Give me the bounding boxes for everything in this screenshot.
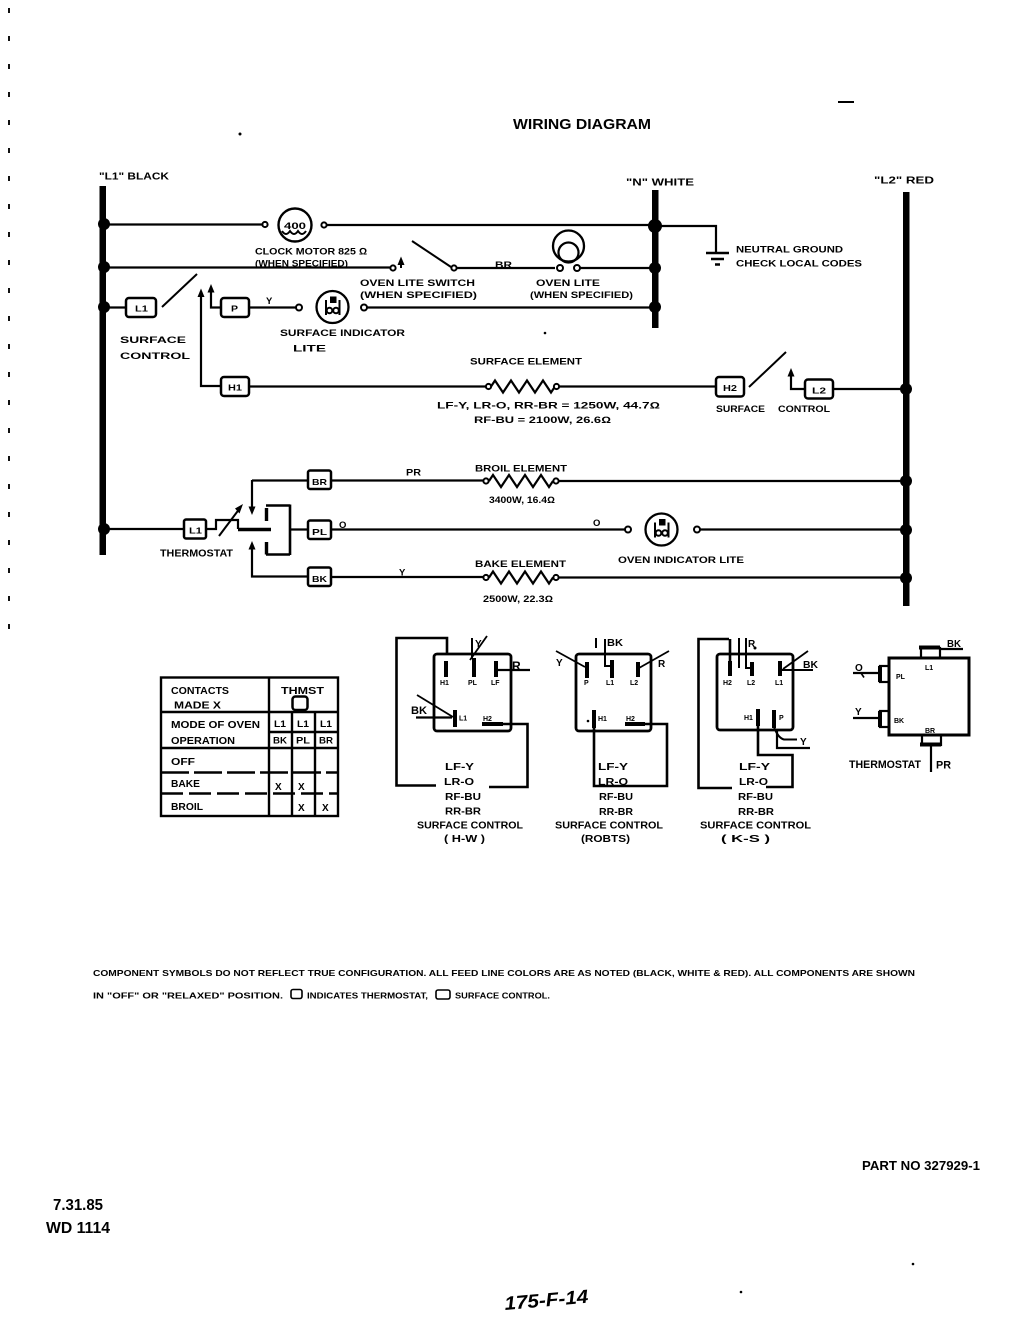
svg-text:RF-BU: RF-BU <box>738 791 773 803</box>
svg-text:OVEN LITE: OVEN LITE <box>536 278 600 289</box>
svg-text:LR-O: LR-O <box>739 776 768 788</box>
svg-text:2500W, 22.3Ω: 2500W, 22.3Ω <box>483 594 553 604</box>
svg-text:R: R <box>658 659 666 670</box>
svg-text:BK: BK <box>411 705 427 717</box>
svg-text:CONTROL: CONTROL <box>778 404 830 415</box>
svg-text:RR-BR: RR-BR <box>599 806 633 818</box>
svg-text:Y: Y <box>855 707 862 718</box>
svg-text:LF-Y: LF-Y <box>445 761 474 773</box>
svg-text:SURFACE INDICATOR: SURFACE INDICATOR <box>280 328 405 339</box>
svg-text:BK: BK <box>273 736 288 746</box>
svg-text:BAKE ELEMENT: BAKE ELEMENT <box>475 559 566 570</box>
svg-text:Y: Y <box>266 296 273 307</box>
svg-text:CLOCK MOTOR 825 Ω: CLOCK MOTOR 825 Ω <box>255 247 367 258</box>
svg-text:L1: L1 <box>274 719 286 729</box>
svg-text:CONTROL: CONTROL <box>120 351 190 362</box>
svg-text:BK: BK <box>312 574 328 584</box>
svg-text:(WHEN SPECIFIED): (WHEN SPECIFIED) <box>360 290 477 301</box>
svg-text:( H-W ): ( H-W ) <box>444 833 485 845</box>
svg-text:Y: Y <box>556 658 563 669</box>
svg-text:"L2" RED: "L2" RED <box>874 176 934 187</box>
svg-text:RF-BU: RF-BU <box>445 791 481 803</box>
svg-text:R: R <box>512 659 521 673</box>
svg-text:X: X <box>298 782 305 793</box>
svg-text:PR: PR <box>406 468 421 479</box>
svg-text:H2: H2 <box>626 716 635 723</box>
svg-text:PL: PL <box>896 674 906 681</box>
svg-text:LF-Y: LF-Y <box>598 761 628 773</box>
svg-text:BAKE: BAKE <box>171 778 200 790</box>
svg-text:Y: Y <box>475 639 482 650</box>
svg-text:Y: Y <box>800 737 807 748</box>
svg-text:LF-Y, LR-O, RR-BR = 1250W, 44.: LF-Y, LR-O, RR-BR = 1250W, 44.7Ω <box>437 401 660 411</box>
svg-text:LF-Y: LF-Y <box>739 761 770 773</box>
svg-text:BR: BR <box>925 728 935 735</box>
svg-text:MADE X: MADE X <box>174 700 221 712</box>
svg-text:SURFACE CONTROL.: SURFACE CONTROL. <box>455 991 550 1001</box>
svg-text:"L1" BLACK: "L1" BLACK <box>99 172 170 183</box>
svg-text:RF-BU: RF-BU <box>599 791 633 803</box>
svg-text:P: P <box>779 715 784 722</box>
svg-text:CONTACTS: CONTACTS <box>171 685 229 697</box>
svg-text:THERMOSTAT: THERMOSTAT <box>849 759 921 771</box>
svg-text:(ROBTS): (ROBTS) <box>581 833 630 845</box>
svg-text:RR-BR: RR-BR <box>445 806 481 818</box>
svg-text:"N" WHITE: "N" WHITE <box>626 178 694 189</box>
svg-text:SURFACE CONTROL: SURFACE CONTROL <box>417 820 524 832</box>
svg-text:BK: BK <box>947 639 962 650</box>
svg-text:( K-S ): ( K-S ) <box>721 833 770 845</box>
svg-text:Y: Y <box>399 568 406 579</box>
svg-text:H2: H2 <box>723 680 732 687</box>
svg-text:CHECK LOCAL CODES: CHECK LOCAL CODES <box>736 259 862 270</box>
svg-text:THMST: THMST <box>281 685 325 697</box>
svg-text:L1: L1 <box>135 304 148 314</box>
svg-text:L1: L1 <box>297 719 309 729</box>
svg-text:P: P <box>584 680 589 687</box>
svg-text:RR-BR: RR-BR <box>738 806 774 818</box>
svg-text:H1: H1 <box>598 716 607 723</box>
svg-text:L2: L2 <box>630 680 638 687</box>
svg-text:PR: PR <box>936 760 951 772</box>
svg-text:7.31.85: 7.31.85 <box>53 1197 103 1214</box>
svg-text:RF-BU = 2100W, 26.6Ω: RF-BU = 2100W, 26.6Ω <box>474 415 611 425</box>
svg-text:L1: L1 <box>775 680 783 687</box>
svg-text:SURFACE ELEMENT: SURFACE ELEMENT <box>470 357 582 368</box>
svg-text:H1: H1 <box>228 383 242 393</box>
svg-text:SURFACE: SURFACE <box>120 335 186 346</box>
svg-text:COMPONENT SYMBOLS DO NOT REFLE: COMPONENT SYMBOLS DO NOT REFLECT TRUE CO… <box>93 968 915 978</box>
svg-text:O: O <box>339 520 346 531</box>
svg-text:BROIL ELEMENT: BROIL ELEMENT <box>475 464 567 475</box>
svg-text:INDICATES THERMOSTAT,: INDICATES THERMOSTAT, <box>307 991 428 1001</box>
svg-text:L1: L1 <box>189 526 202 536</box>
svg-text:BK: BK <box>894 718 904 725</box>
svg-text:LR-O: LR-O <box>444 776 474 788</box>
svg-text:PL: PL <box>296 736 311 746</box>
svg-text:LF: LF <box>491 680 500 687</box>
svg-text:IN "OFF" OR "RELAXED" POSITION: IN "OFF" OR "RELAXED" POSITION. <box>93 991 283 1001</box>
svg-text:WD 1114: WD 1114 <box>46 1220 110 1237</box>
svg-text:LITE: LITE <box>293 344 326 355</box>
svg-text:H2: H2 <box>483 716 492 723</box>
svg-text:WIRING DIAGRAM: WIRING DIAGRAM <box>513 116 651 133</box>
svg-text:BR: BR <box>319 736 334 746</box>
svg-text:P: P <box>231 304 238 314</box>
svg-text:LR-O: LR-O <box>598 776 628 788</box>
svg-text:3400W, 16.4Ω: 3400W, 16.4Ω <box>489 495 555 505</box>
svg-text:H2: H2 <box>723 383 737 393</box>
svg-text:BR: BR <box>312 477 327 487</box>
svg-text:X: X <box>298 803 305 814</box>
svg-text:L1: L1 <box>459 716 467 723</box>
svg-text:BROIL: BROIL <box>171 801 204 813</box>
svg-text:H1: H1 <box>744 715 753 722</box>
svg-text:SURFACE CONTROL: SURFACE CONTROL <box>555 820 664 832</box>
svg-text:BK: BK <box>607 638 624 649</box>
svg-text:X: X <box>275 782 282 793</box>
svg-text:PART NO 327929-1: PART NO 327929-1 <box>862 1159 980 1173</box>
svg-text:THERMOSTAT: THERMOSTAT <box>160 549 233 560</box>
svg-text:BR: BR <box>495 260 512 271</box>
svg-text:SURFACE: SURFACE <box>716 404 765 415</box>
svg-text:SURFACE CONTROL: SURFACE CONTROL <box>700 820 812 832</box>
svg-text:OVEN LITE SWITCH: OVEN LITE SWITCH <box>360 278 475 289</box>
svg-text:L2: L2 <box>747 680 755 687</box>
svg-text:OFF: OFF <box>171 756 196 768</box>
svg-text:400: 400 <box>284 221 306 231</box>
svg-text:BK: BK <box>803 660 819 671</box>
svg-text:O: O <box>855 663 863 674</box>
svg-text:(WHEN SPECIFIED): (WHEN SPECIFIED) <box>530 290 633 301</box>
svg-text:OPERATION: OPERATION <box>171 735 235 747</box>
svg-text:PL: PL <box>468 680 478 687</box>
svg-text:NEUTRAL GROUND: NEUTRAL GROUND <box>736 245 843 256</box>
svg-text:PL: PL <box>312 527 327 537</box>
svg-text:L1: L1 <box>320 719 332 729</box>
svg-text:O: O <box>593 518 600 529</box>
svg-text:L1: L1 <box>925 665 933 672</box>
svg-text:H1: H1 <box>440 680 449 687</box>
svg-text:L2: L2 <box>812 386 826 396</box>
svg-text:MODE OF OVEN: MODE OF OVEN <box>171 719 260 731</box>
svg-text:L1: L1 <box>606 680 614 687</box>
svg-text:X: X <box>322 803 329 814</box>
svg-text:OVEN INDICATOR LITE: OVEN INDICATOR LITE <box>618 555 744 566</box>
svg-text:175-F-14: 175-F-14 <box>504 1287 590 1315</box>
